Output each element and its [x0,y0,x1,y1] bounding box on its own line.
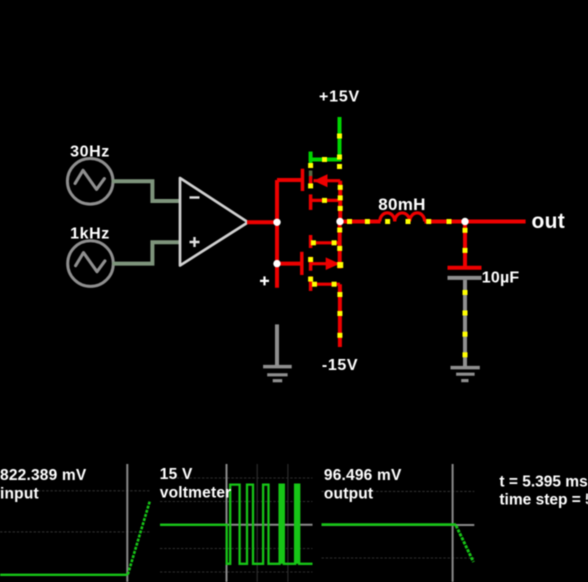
svg-text:15 V: 15 V [160,466,193,483]
scope pane 2 zero axis [160,524,313,526]
svg-text:+15V: +15V [319,89,360,106]
ground G1 below voltmeter [263,367,292,381]
svg-text:input: input [0,485,39,502]
wire to PMOS gate [277,178,303,182]
scope pane 3 trace falling segment [456,526,474,563]
wire out node down to capacitor [463,222,467,267]
transistor Q2 NMOS [302,222,340,291]
Q2 bulk arrow line [311,262,340,265]
node out [461,218,468,225]
scope pane 2 narrow pulse fills [279,485,285,564]
voltage source V2 (1kHz AC source) [68,241,114,287]
scope pane 3 zero axis [322,524,475,526]
op-amp U1 plus input marker [190,237,200,247]
svg-text:96.496 mV: 96.496 mV [324,467,402,484]
Q2 source lead [311,283,340,286]
wire +15V to PMOS source [311,152,342,160]
Q2 bulk arrow head (points right) [326,257,340,270]
Q2 drain lead [311,241,340,244]
wire from V2 to op-amp non-inverting input [112,242,180,263]
SCOPE [0,464,588,582]
Q1 bulk arrow line [314,179,341,182]
voltage source V1 (30Hz AC source) [67,159,113,205]
wire op-amp output [247,220,277,224]
svg-text:10µF: 10µF [482,270,520,287]
svg-text:output: output [324,485,373,502]
Q2 drain contact bar [309,235,313,248]
wire to NMOS gate [277,262,302,266]
Q1 drain contact bar [309,194,313,210]
svg-text:-15V: -15V [322,357,358,374]
node at NMOS gate junction [273,260,280,267]
svg-text:822.389 mV: 822.389 mV [0,467,87,484]
scope pane 1 trace (input) [0,574,128,576]
transistor Q1 PMOS [303,152,341,222]
Q2 channel bar [309,257,313,271]
svg-text:voltmeter: voltmeter [160,485,232,502]
scope pane 3 gridlines [322,491,475,558]
wire from +15V rail down [338,117,342,162]
wire Q2 drain to output node [338,222,342,269]
op-amp U1 minus input marker [190,196,200,198]
capacitor C1 top plate [448,266,482,270]
wire from V1 to op-amp inverting input [112,181,181,201]
scope pane 2 minor vertical gridlines [257,464,288,582]
Q2 gate bar [300,252,304,275]
wire NMOS source to -15V rail [338,284,342,347]
svg-text:t = 5.395 ms: t = 5.395 ms [499,473,587,490]
svg-text:time step = 5: time step = 5 [499,492,588,509]
current dots [308,134,467,358]
Q1 channel bar [309,176,313,187]
ground G2 below capacitor [451,368,480,381]
scope pane 2 gridlines [160,478,313,572]
node at MOSFET drains / inductor [336,218,343,225]
svg-text:80mH: 80mH [378,195,426,214]
scope pane 1 gridlines [0,491,151,532]
Q1 source contact bar [309,152,313,164]
wire out node to label [465,220,526,224]
node at op-amp output [273,219,280,226]
scope pane 1 trace rising segment [128,501,150,575]
svg-text:out: out [532,210,566,233]
wire capacitor to ground [463,280,467,368]
wire inductor to out node [425,220,466,224]
capacitor C1 bottom plate [448,276,482,280]
Q2 source contact bar [309,276,313,291]
scope pane 3 trace (output) [322,523,457,526]
Q1 bulk arrow head (points left) [314,174,328,187]
op-amp U1 [180,178,248,266]
Q1 drain lead [311,199,341,202]
scope pane 2 trace (voltmeter square wave) [160,485,313,564]
wire gate bus vertical [275,180,279,288]
inductor L1 coil [380,213,425,222]
wire voltmeter to ground (below gap) [275,324,279,366]
Q1 source-channel transition [309,171,313,177]
scope pane 3 sweep pointer [452,464,454,582]
wire Q1 drain to output node [338,181,342,222]
scope pane 2 sweep pointer [226,464,228,582]
voltmeter positive terminal label [260,276,269,285]
Q1 gate bar [301,169,305,191]
scope pane 1 sweep pointer [126,464,128,582]
wire output node to inductor [340,220,380,224]
